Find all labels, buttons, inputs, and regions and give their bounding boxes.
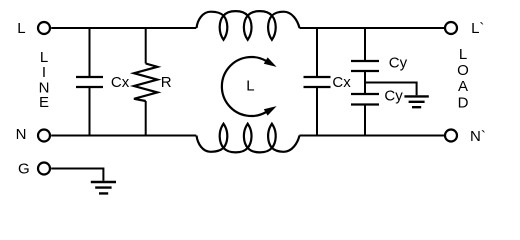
wire Cy1 top lead xyxy=(364,28,366,60)
capacitor Cx (left) xyxy=(76,77,103,87)
svg-text:D: D xyxy=(458,95,469,112)
svg-text:N`: N` xyxy=(470,128,486,145)
wire Cx1 bottom lead xyxy=(89,88,91,136)
wire Cy mid lead xyxy=(364,72,366,93)
wire G to ground xyxy=(51,169,103,181)
svg-text:R: R xyxy=(161,74,172,91)
wire top rail left xyxy=(51,27,196,29)
arrowhead bottom of L arrow xyxy=(264,106,277,116)
svg-text:Cy: Cy xyxy=(384,87,403,104)
inductance arrow circle xyxy=(222,57,266,116)
wire Cx2 bottom lead xyxy=(316,88,318,136)
wire Cy2 bottom lead xyxy=(364,106,366,136)
arrowhead top of L arrow xyxy=(264,57,277,67)
svg-text:N: N xyxy=(16,126,27,143)
wire bottom rail right xyxy=(299,135,444,137)
svg-text:L: L xyxy=(459,46,467,63)
svg-text:G: G xyxy=(18,160,30,177)
resistor R xyxy=(134,64,157,102)
wire bottom rail left xyxy=(51,135,196,137)
terminal N` xyxy=(445,130,457,142)
wire R top lead xyxy=(145,28,147,64)
wire Cx2 top lead xyxy=(316,28,318,76)
wire Cy tap to ground xyxy=(365,83,417,96)
capacitor Cy (bottom) xyxy=(351,94,379,105)
capacitor Cy (top) xyxy=(351,61,379,71)
inductor L bottom winding xyxy=(197,124,300,153)
terminal G xyxy=(38,163,50,175)
inductor L top winding xyxy=(197,11,300,40)
svg-text:E: E xyxy=(39,94,49,111)
wire top rail right xyxy=(299,27,444,29)
terminal L` xyxy=(445,22,457,34)
svg-text:L: L xyxy=(246,77,254,94)
svg-text:A: A xyxy=(458,78,468,95)
svg-text:L: L xyxy=(17,20,25,37)
capacitor Cx (right) xyxy=(304,77,331,87)
terminal L xyxy=(38,22,50,34)
svg-text:Cx: Cx xyxy=(332,74,351,91)
svg-text:L`: L` xyxy=(471,20,484,37)
svg-text:Cy: Cy xyxy=(389,55,408,72)
wire R bottom lead xyxy=(145,101,147,136)
wire Cx1 top lead xyxy=(89,28,91,76)
svg-text:Cx: Cx xyxy=(111,74,130,91)
terminal N xyxy=(38,130,50,142)
svg-text:O: O xyxy=(457,62,469,79)
ground (left, earth) xyxy=(91,182,116,193)
ground (right, chassis) xyxy=(404,96,428,107)
